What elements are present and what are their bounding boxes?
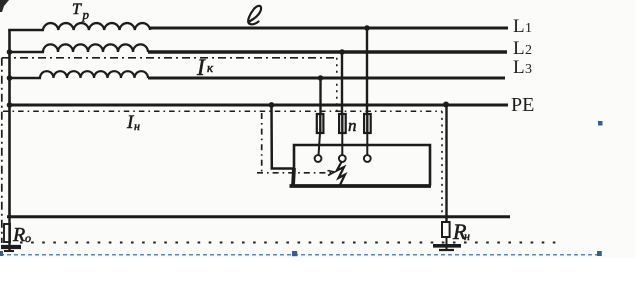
transformer Tp winding, phase L2: [43, 44, 148, 52]
svg-text:3: 3: [525, 62, 532, 77]
node: L1 tap: [364, 25, 370, 31]
svg-text:1: 1: [525, 21, 532, 36]
line PE: [10, 104, 509, 107]
fuse F1 (phase L3): [317, 114, 324, 133]
wire: L2 drop to fuse F2: [341, 52, 343, 115]
svg-text:к: к: [207, 60, 214, 75]
enclosure zone boundary: left dashed vertical: [261, 113, 263, 172]
wire: PE down to earth electrode Rn: [445, 105, 447, 223]
svg-text:н: н: [134, 119, 140, 133]
svg-text:н: н: [464, 229, 470, 243]
earth electrode Ro: [1, 217, 21, 251]
fault current loop Ik: drop along L2 feeder: [336, 58, 338, 113]
wire: fuse F2 to terminal: [341, 133, 343, 156]
equipment enclosure box: [290, 145, 432, 186]
selection handle bottom-left: [0, 251, 3, 256]
wire: L2 stub to bus: [10, 51, 45, 54]
node: PE tap for bonding: [269, 102, 275, 108]
bottom earth line: [7, 215, 510, 218]
svg-text:L: L: [513, 38, 525, 59]
terminal (L3 phase): [315, 155, 322, 162]
terminal (L2 phase): [339, 155, 346, 162]
svg-text:o: o: [25, 231, 31, 245]
load current path In (dash-dot below PE): [3, 110, 442, 112]
svg-text:L: L: [513, 57, 525, 78]
line L3: [148, 77, 505, 80]
wire: PE bonding conductor to enclosure: [272, 105, 294, 169]
svg-text:L: L: [513, 16, 525, 37]
wire: L3 stub to bus: [10, 77, 42, 80]
enclosure zone boundary: right dotted vertical: [441, 111, 443, 214]
arrowhead toward fault: [328, 171, 335, 176]
wire: fuse F1 to terminal: [319, 133, 321, 156]
node: L3 stub junction: [7, 75, 13, 81]
wire: L1 stub to bus: [8, 29, 44, 32]
fault flash at terminal L2: [337, 161, 345, 185]
transformer Tp winding, phase L3: [40, 71, 148, 78]
fuse F2 (phase L2): [339, 114, 346, 133]
svg-text:п: п: [348, 116, 357, 135]
neutral bus wire (left vertical): [8, 29, 11, 217]
svg-text:R: R: [12, 224, 25, 246]
node: PE tap to earth electrode Rn: [443, 102, 449, 108]
node: L3 tap: [318, 75, 324, 81]
svg-text:PE: PE: [511, 94, 534, 116]
wire: L1 drop to fuse F3: [366, 28, 368, 115]
transformer Tp winding, phase L1: [43, 23, 150, 30]
selection handle mid-right: [598, 121, 603, 126]
node: L2 stub junction: [7, 49, 13, 55]
svg-text:2: 2: [525, 43, 532, 58]
svg-text:I: I: [196, 55, 206, 80]
wire: L3 drop to fuse F1: [319, 78, 321, 115]
fault current loop Ik: left vertical run: [1, 58, 3, 243]
wire: fuse F3 to terminal: [366, 133, 368, 156]
node: PE at bus: [7, 102, 13, 108]
selection handle bottom-middle: [292, 251, 297, 256]
line L1: [150, 27, 508, 30]
svg-text:T: T: [72, 1, 82, 18]
scan corner artifact: [0, 0, 9, 12]
node: L2 tap: [339, 49, 345, 55]
line L2: [148, 50, 507, 54]
selection border (blue dashed): [0, 254, 598, 256]
enclosure zone boundary: bottom dashed run to fault: [257, 172, 331, 174]
label ℓ (line designation): [248, 6, 261, 24]
selection handle bottom-right: [597, 251, 602, 256]
fault current loop Ik: top dash-dot run: [2, 57, 337, 59]
earth electrode Rn: [433, 222, 461, 251]
fuse F3 (phase L1): [364, 114, 371, 133]
terminal (L1 phase): [364, 155, 371, 162]
earth current path (bottom dotted): [20, 242, 560, 244]
svg-text:p: p: [82, 7, 90, 22]
